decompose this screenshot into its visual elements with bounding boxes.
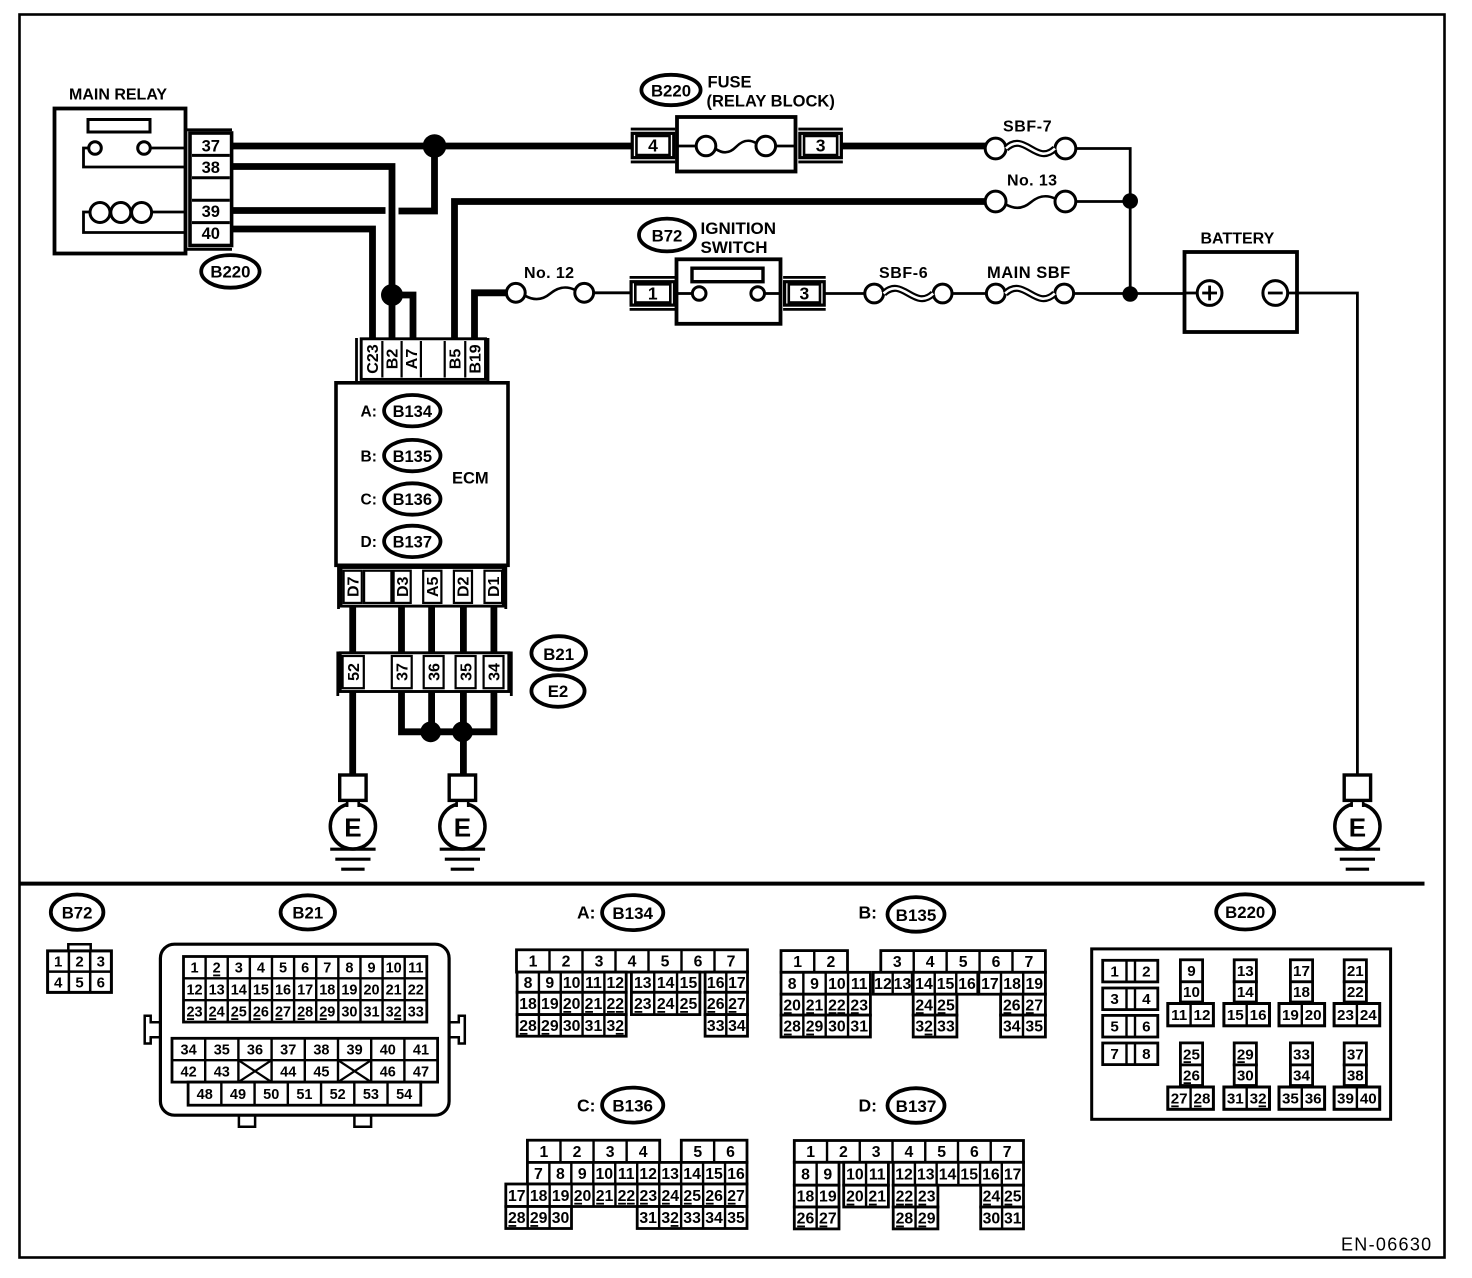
- oval label B135: [384, 440, 440, 471]
- ground E middle: [440, 804, 485, 849]
- svg-text:39: 39: [202, 203, 220, 221]
- svg-text:41: 41: [413, 1042, 429, 1058]
- ECM bottom connector bracket left: [337, 566, 340, 609]
- svg-text:7: 7: [534, 1166, 543, 1183]
- svg-text:2: 2: [839, 1144, 848, 1161]
- svg-text:24: 24: [1360, 1007, 1377, 1024]
- svg-text:52: 52: [330, 1087, 346, 1103]
- svg-text:11: 11: [1171, 1007, 1188, 1024]
- svg-text:5: 5: [75, 974, 83, 991]
- svg-text:2: 2: [826, 954, 835, 971]
- svg-text:30: 30: [552, 1210, 570, 1227]
- svg-text:31: 31: [1004, 1211, 1022, 1228]
- svg-text:7: 7: [323, 961, 331, 977]
- svg-text:3: 3: [800, 284, 810, 304]
- svg-text:12: 12: [607, 975, 625, 992]
- svg-text:38: 38: [313, 1042, 329, 1058]
- connector B21 bottom tab left: [239, 1115, 255, 1127]
- svg-text:10: 10: [563, 975, 581, 992]
- svg-text:4: 4: [926, 954, 935, 971]
- svg-text:18: 18: [1293, 984, 1310, 1001]
- svg-text:33: 33: [937, 1019, 955, 1036]
- svg-text:B72: B72: [652, 226, 683, 245]
- wire battery negative to ground: [1288, 293, 1358, 776]
- svg-text:E: E: [1349, 812, 1366, 842]
- svg-text:5: 5: [693, 1144, 702, 1161]
- fuse No. 12: [506, 283, 525, 302]
- svg-text:40: 40: [202, 225, 220, 243]
- svg-text:5: 5: [959, 954, 968, 971]
- svg-text:D2: D2: [456, 576, 473, 597]
- connector B21 right side tab: [449, 1016, 465, 1044]
- svg-text:15: 15: [705, 1166, 723, 1183]
- svg-text:25: 25: [231, 1004, 247, 1020]
- svg-text:B220: B220: [210, 263, 250, 282]
- svg-text:10: 10: [846, 1166, 864, 1183]
- oval label B220 pinout: [1216, 894, 1274, 929]
- svg-text:5: 5: [661, 954, 670, 971]
- svg-text:39: 39: [1337, 1091, 1354, 1108]
- ECM bottom connector bracket right: [504, 566, 507, 609]
- svg-text:19: 19: [341, 982, 357, 998]
- svg-text:20: 20: [363, 982, 379, 998]
- svg-text:No. 13: No. 13: [1007, 173, 1057, 190]
- body connector box: [340, 653, 509, 692]
- svg-text:26: 26: [1183, 1067, 1200, 1084]
- svg-text:A5: A5: [425, 576, 442, 597]
- svg-text:E: E: [454, 812, 471, 842]
- wire pin 35 to ground E: [460, 692, 467, 777]
- svg-text:9: 9: [367, 961, 375, 977]
- connector B220 bracket bottom: [186, 248, 232, 251]
- wire pin 36 to ground junction: [428, 692, 435, 732]
- svg-text:36: 36: [247, 1042, 263, 1058]
- svg-text:31: 31: [639, 1210, 657, 1227]
- svg-text:4: 4: [257, 961, 265, 977]
- svg-text:7: 7: [727, 954, 736, 971]
- wire pin 40 to ECM C23: [232, 229, 373, 340]
- svg-text:14: 14: [939, 1166, 957, 1183]
- svg-text:26: 26: [797, 1211, 815, 1228]
- relay switch common wire: [84, 148, 187, 167]
- svg-text:28: 28: [519, 1018, 537, 1035]
- connector B135 pinout grid: [781, 951, 848, 973]
- svg-text:C:: C:: [361, 492, 377, 509]
- svg-text:15: 15: [680, 975, 698, 992]
- svg-text:ECM: ECM: [452, 470, 489, 488]
- svg-text:39: 39: [347, 1042, 363, 1058]
- svg-text:23: 23: [850, 997, 868, 1014]
- relay coil right lead: [152, 211, 186, 214]
- oval label B72 pinout: [51, 895, 104, 930]
- relay contact right: [138, 142, 151, 155]
- svg-text:35: 35: [1282, 1091, 1299, 1108]
- svg-text:28: 28: [1194, 1091, 1211, 1108]
- svg-text:3: 3: [893, 954, 902, 971]
- svg-text:21: 21: [1347, 963, 1364, 980]
- svg-text:1: 1: [1110, 964, 1119, 981]
- ignition switch connector pin 3: [783, 276, 826, 279]
- svg-text:13: 13: [634, 975, 652, 992]
- svg-text:15: 15: [937, 976, 955, 993]
- svg-text:A:: A:: [361, 403, 377, 420]
- svg-text:24: 24: [657, 996, 675, 1013]
- svg-text:29: 29: [319, 1004, 335, 1020]
- svg-text:6: 6: [726, 1144, 735, 1161]
- svg-text:8: 8: [345, 961, 353, 977]
- ECM box: [336, 383, 508, 566]
- svg-text:25: 25: [683, 1188, 701, 1205]
- svg-text:17: 17: [508, 1188, 526, 1205]
- svg-text:18: 18: [319, 982, 335, 998]
- svg-text:11: 11: [851, 976, 868, 993]
- wire MAIN SBF to battery: [1074, 292, 1185, 295]
- wire SBF-7 to node: [1076, 149, 1130, 202]
- svg-text:7: 7: [1003, 1144, 1012, 1161]
- svg-text:18: 18: [519, 996, 537, 1013]
- svg-text:27: 27: [1025, 997, 1043, 1014]
- svg-text:B136: B136: [612, 1096, 653, 1115]
- svg-text:30: 30: [1237, 1067, 1254, 1084]
- junction node battery feed: [1122, 286, 1138, 302]
- svg-text:17: 17: [981, 976, 999, 993]
- ground E left: [330, 804, 375, 849]
- svg-text:14: 14: [231, 982, 247, 998]
- svg-text:18: 18: [530, 1188, 548, 1205]
- svg-text:17: 17: [1293, 963, 1310, 980]
- svg-text:9: 9: [1187, 963, 1195, 980]
- oval label B135 pinout: [888, 897, 945, 932]
- svg-text:23: 23: [918, 1189, 936, 1206]
- svg-text:12: 12: [186, 982, 202, 998]
- wire pin 34 to ground junction: [466, 692, 494, 732]
- ECM bottom connector box: [341, 568, 503, 607]
- connector B21 bottom tab right: [354, 1115, 371, 1127]
- svg-text:8: 8: [801, 1166, 810, 1183]
- svg-text:21: 21: [806, 997, 824, 1014]
- svg-text:29: 29: [1237, 1046, 1254, 1063]
- wire pin 37 to ground junction: [402, 692, 429, 732]
- svg-text:31: 31: [850, 1019, 868, 1036]
- svg-text:30: 30: [341, 1004, 357, 1020]
- svg-text:48: 48: [197, 1087, 213, 1103]
- svg-text:SWITCH: SWITCH: [701, 238, 768, 257]
- wire junction down to wire 39: [399, 146, 435, 211]
- wire No.12 to ignition connector 1: [594, 291, 631, 294]
- svg-text:31: 31: [1227, 1091, 1244, 1108]
- svg-text:6: 6: [970, 1144, 979, 1161]
- wire branch junction to ECM A7: [392, 295, 413, 340]
- svg-text:2: 2: [562, 954, 571, 971]
- connector B134 pinout grid: [517, 950, 748, 972]
- svg-text:16: 16: [1250, 1007, 1267, 1024]
- svg-text:11: 11: [585, 975, 602, 992]
- svg-text:22: 22: [607, 996, 625, 1013]
- svg-text:14: 14: [915, 976, 933, 993]
- svg-text:19: 19: [552, 1188, 570, 1205]
- svg-text:23: 23: [634, 996, 652, 1013]
- svg-text:35: 35: [1025, 1019, 1043, 1036]
- oval label B220 of relay block: [641, 75, 700, 105]
- connector B137 pinout grid: [794, 1141, 1023, 1163]
- fuse block connector pin 4: [631, 128, 676, 131]
- svg-text:29: 29: [806, 1019, 824, 1036]
- svg-text:25: 25: [1004, 1189, 1022, 1206]
- svg-text:4: 4: [1142, 991, 1151, 1008]
- connector B136 pinout grid: [527, 1140, 659, 1162]
- wire pin 38 to ECM B2: [232, 167, 392, 341]
- relay contact left: [89, 142, 102, 155]
- oval label B21 of body connector: [531, 636, 586, 670]
- relay switch bar: [88, 120, 150, 133]
- svg-text:6: 6: [97, 974, 105, 991]
- svg-text:IGNITION: IGNITION: [701, 219, 777, 238]
- svg-text:5: 5: [937, 1144, 946, 1161]
- wire junction1 to junction2: [431, 728, 463, 735]
- wire fuse block to fuse SBF-7: [841, 143, 985, 150]
- wire D1 to pin 34: [490, 606, 497, 655]
- svg-text:18: 18: [797, 1189, 815, 1206]
- svg-text:BATTERY: BATTERY: [1201, 231, 1275, 248]
- svg-text:19: 19: [541, 996, 559, 1013]
- svg-text:4: 4: [639, 1144, 648, 1161]
- svg-text:35: 35: [214, 1042, 230, 1058]
- ignition switch contact right: [751, 287, 765, 301]
- oval label B134: [384, 395, 440, 426]
- svg-text:44: 44: [280, 1064, 296, 1080]
- svg-text:B5: B5: [448, 349, 465, 370]
- svg-text:EN-06630: EN-06630: [1341, 1235, 1432, 1255]
- svg-text:17: 17: [728, 975, 746, 992]
- svg-text:8: 8: [524, 975, 533, 992]
- svg-text:10: 10: [828, 976, 846, 993]
- svg-text:B135: B135: [896, 906, 937, 925]
- svg-text:13: 13: [1237, 963, 1254, 980]
- separator line between schematic and pinout section: [20, 882, 1425, 886]
- oval label B137 pinout: [888, 1088, 945, 1123]
- relay contact wire to pin 37: [150, 147, 186, 150]
- svg-text:22: 22: [1347, 984, 1364, 1001]
- svg-text:22: 22: [618, 1188, 636, 1205]
- svg-text:22: 22: [896, 1189, 914, 1206]
- svg-text:34: 34: [728, 1018, 746, 1035]
- svg-text:38: 38: [1347, 1067, 1364, 1084]
- svg-text:19: 19: [1026, 976, 1044, 993]
- svg-text:1: 1: [54, 954, 62, 971]
- svg-text:2: 2: [1142, 964, 1150, 981]
- junction node ground 1: [420, 721, 441, 742]
- svg-text:8: 8: [556, 1166, 565, 1183]
- svg-text:15: 15: [1227, 1007, 1244, 1024]
- svg-text:30: 30: [563, 1018, 581, 1035]
- svg-text:35: 35: [727, 1210, 745, 1227]
- svg-text:8: 8: [788, 976, 797, 993]
- svg-text:B134: B134: [612, 904, 653, 923]
- svg-text:25: 25: [1183, 1046, 1200, 1063]
- svg-text:12: 12: [874, 976, 892, 993]
- svg-text:33: 33: [707, 1018, 725, 1035]
- svg-text:B134: B134: [393, 403, 433, 421]
- svg-text:D:: D:: [859, 1096, 877, 1116]
- svg-text:5: 5: [279, 961, 287, 977]
- svg-text:1: 1: [806, 1144, 815, 1161]
- svg-text:MAIN SBF: MAIN SBF: [987, 264, 1071, 282]
- svg-text:53: 53: [363, 1087, 379, 1103]
- svg-text:21: 21: [596, 1188, 614, 1205]
- svg-text:30: 30: [983, 1211, 1001, 1228]
- svg-text:47: 47: [413, 1064, 429, 1080]
- junction node wire37/39: [423, 134, 447, 158]
- svg-text:4: 4: [54, 974, 63, 991]
- svg-text:24: 24: [915, 997, 933, 1014]
- fuse element in relay block: [677, 145, 696, 148]
- svg-text:37: 37: [1347, 1046, 1364, 1063]
- svg-text:7: 7: [1025, 954, 1034, 971]
- svg-text:29: 29: [918, 1211, 936, 1228]
- svg-text:14: 14: [657, 975, 675, 992]
- svg-text:27: 27: [1171, 1091, 1188, 1108]
- svg-text:26: 26: [253, 1004, 269, 1020]
- svg-text:22: 22: [408, 982, 424, 998]
- svg-text:B19: B19: [468, 344, 485, 373]
- svg-text:24: 24: [661, 1188, 679, 1205]
- svg-text:E: E: [344, 812, 361, 842]
- svg-text:32: 32: [1250, 1091, 1267, 1108]
- connector B220 bracket top: [186, 128, 232, 131]
- svg-text:34: 34: [705, 1210, 723, 1227]
- ignition switch connector pin 1: [630, 276, 676, 279]
- svg-text:10: 10: [1183, 984, 1200, 1001]
- svg-text:33: 33: [683, 1210, 701, 1227]
- svg-text:32: 32: [607, 1018, 625, 1035]
- svg-text:1: 1: [793, 954, 802, 971]
- svg-text:25: 25: [937, 997, 955, 1014]
- svg-text:51: 51: [296, 1087, 312, 1103]
- connector B21 pin grid rows 48-54: [188, 1082, 421, 1105]
- svg-text:25: 25: [680, 996, 698, 1013]
- svg-text:40: 40: [380, 1042, 396, 1058]
- relay coil: [90, 203, 110, 223]
- svg-text:26: 26: [705, 1188, 723, 1205]
- svg-text:B:: B:: [859, 903, 877, 923]
- svg-text:No. 12: No. 12: [524, 265, 574, 282]
- svg-text:12: 12: [1194, 1007, 1211, 1024]
- svg-text:E2: E2: [548, 682, 569, 701]
- svg-text:FUSE: FUSE: [708, 74, 752, 92]
- svg-text:12: 12: [895, 1166, 913, 1183]
- svg-text:32: 32: [386, 1004, 402, 1020]
- svg-text:3: 3: [595, 954, 604, 971]
- fuse No. 13: [985, 191, 1006, 212]
- svg-text:4: 4: [648, 136, 658, 156]
- svg-text:16: 16: [982, 1166, 1000, 1183]
- svg-text:13: 13: [209, 982, 225, 998]
- ignition switch slider bar: [692, 268, 763, 282]
- svg-text:5: 5: [1110, 1019, 1119, 1036]
- svg-text:50: 50: [263, 1087, 279, 1103]
- oval label E2 ground connector: [531, 675, 584, 707]
- svg-text:36: 36: [1305, 1091, 1322, 1108]
- svg-text:18: 18: [1003, 976, 1021, 993]
- svg-text:SBF-7: SBF-7: [1003, 119, 1052, 136]
- svg-text:1: 1: [529, 954, 538, 971]
- svg-text:3: 3: [872, 1144, 881, 1161]
- svg-text:16: 16: [275, 982, 291, 998]
- svg-text:2: 2: [213, 961, 221, 977]
- svg-text:3: 3: [1110, 991, 1118, 1008]
- svg-text:A:: A:: [577, 903, 595, 923]
- connector B72 pinout grid: [68, 944, 90, 950]
- body connector bracket right: [510, 652, 513, 697]
- battery positive terminal: [1197, 281, 1222, 306]
- fuse SBF-6: [865, 284, 884, 303]
- connector B220 pinout outer box: [1092, 949, 1391, 1119]
- oval label B137: [384, 526, 440, 557]
- body connector bracket left: [336, 652, 339, 697]
- wire pin37 to fuse connector 4: [232, 143, 632, 150]
- svg-text:9: 9: [823, 1166, 832, 1183]
- connector B220 T-groups pins 9-40: [1180, 960, 1202, 982]
- svg-text:34: 34: [486, 663, 503, 681]
- svg-text:2: 2: [573, 1144, 582, 1161]
- svg-text:6: 6: [694, 954, 703, 971]
- svg-text:46: 46: [380, 1064, 396, 1080]
- svg-text:B72: B72: [62, 903, 93, 922]
- wire D7 to pin 52: [349, 606, 356, 655]
- connector B220 left pin pairs 1-8: [1103, 960, 1158, 982]
- ECM top connector box: [361, 339, 485, 380]
- ignition switch contact left: [692, 287, 706, 301]
- ignition switch box: [677, 259, 781, 324]
- svg-text:3: 3: [97, 954, 105, 971]
- svg-text:1: 1: [648, 284, 658, 304]
- svg-text:49: 49: [230, 1087, 246, 1103]
- svg-text:6: 6: [992, 954, 1001, 971]
- svg-text:6: 6: [1142, 1019, 1150, 1036]
- svg-text:40: 40: [1360, 1091, 1377, 1108]
- svg-text:1: 1: [540, 1144, 549, 1161]
- svg-text:28: 28: [783, 1019, 801, 1036]
- svg-text:20: 20: [574, 1188, 592, 1205]
- svg-text:C23: C23: [365, 344, 382, 373]
- svg-text:23: 23: [640, 1188, 658, 1205]
- wire SBF-6 to MAIN SBF: [952, 292, 986, 295]
- oval label B220 of main relay connector: [201, 255, 259, 288]
- svg-text:8: 8: [1142, 1046, 1150, 1063]
- connector B220 pin column box: [190, 133, 232, 246]
- svg-text:34: 34: [1003, 1019, 1021, 1036]
- svg-text:42: 42: [181, 1064, 197, 1080]
- wire No.13 to node: [1076, 200, 1130, 203]
- svg-text:34: 34: [1293, 1067, 1310, 1084]
- svg-text:20: 20: [563, 996, 581, 1013]
- oval label B21 pinout: [281, 895, 335, 929]
- svg-text:3: 3: [606, 1144, 615, 1161]
- svg-text:B137: B137: [393, 534, 432, 552]
- svg-text:22: 22: [828, 997, 846, 1014]
- svg-text:14: 14: [683, 1166, 701, 1183]
- svg-text:21: 21: [386, 982, 402, 998]
- svg-text:D7: D7: [345, 576, 362, 597]
- svg-text:24: 24: [209, 1004, 225, 1020]
- svg-text:9: 9: [545, 975, 554, 992]
- svg-text:33: 33: [1293, 1046, 1310, 1063]
- svg-text:11: 11: [618, 1166, 635, 1183]
- svg-text:2: 2: [75, 954, 83, 971]
- svg-text:10: 10: [595, 1166, 613, 1183]
- fuse MAIN SBF: [986, 284, 1005, 303]
- fuse SBF-7: [985, 138, 1006, 159]
